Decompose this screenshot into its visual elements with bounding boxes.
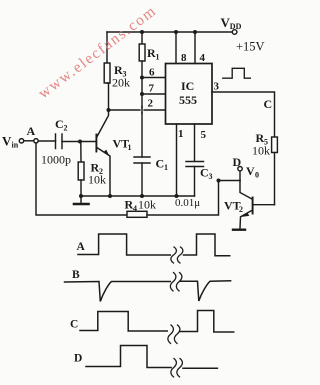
resistor R5 bbox=[272, 137, 278, 153]
svg-text:7: 7 bbox=[149, 83, 155, 95]
resistor R2 bbox=[80, 142, 82, 163]
svg-text:10k: 10k bbox=[252, 144, 270, 158]
wire Vin to A bbox=[24, 140, 34, 142]
svg-text:1: 1 bbox=[164, 163, 168, 172]
wire pin7 bbox=[142, 93, 166, 95]
wire C2 to VT1 base bbox=[62, 141, 96, 143]
node dot base/R2 bbox=[78, 140, 82, 144]
terminal VDD bbox=[232, 30, 237, 35]
waveform C trace bbox=[80, 312, 167, 332]
svg-text:in: in bbox=[12, 141, 19, 150]
svg-text:C: C bbox=[200, 166, 209, 180]
node dot R3/VT1 collector bbox=[107, 108, 111, 112]
svg-text:10k: 10k bbox=[138, 198, 156, 212]
wire R4 to VT2 base column bbox=[147, 181, 219, 216]
wire to node D / VT2 base bbox=[219, 180, 241, 182]
pulse symbol at output bbox=[223, 68, 251, 78]
svg-text:+15V: +15V bbox=[236, 40, 265, 54]
resistor R3 bbox=[106, 32, 108, 63]
svg-text:555: 555 bbox=[179, 93, 197, 107]
break symbol A bbox=[171, 247, 183, 263]
transistor VT1 bbox=[96, 110, 110, 196]
svg-text:20k: 20k bbox=[112, 76, 130, 90]
capacitor C1 bbox=[134, 156, 150, 158]
svg-text:A: A bbox=[77, 241, 86, 253]
node D terminal bbox=[239, 171, 241, 181]
svg-text:8: 8 bbox=[181, 52, 187, 64]
svg-text:IC: IC bbox=[181, 79, 194, 93]
break symbol B bbox=[170, 273, 182, 291]
waveform traces bbox=[65, 234, 234, 377]
svg-text:2: 2 bbox=[239, 205, 243, 214]
svg-text:3: 3 bbox=[214, 81, 220, 93]
svg-text:C: C bbox=[70, 319, 78, 331]
wire R1 bottom to C1 bbox=[141, 61, 143, 157]
wire pin1 bbox=[176, 124, 178, 196]
op-amp/IC U1 555 box bbox=[166, 64, 213, 125]
waveform B trace bbox=[65, 282, 171, 302]
wire A down + feedback line bbox=[36, 143, 127, 215]
waveform A trace bbox=[78, 234, 170, 255]
node dot pin6 tap bbox=[140, 76, 144, 80]
wire pin4 bbox=[194, 32, 196, 64]
svg-text:C: C bbox=[264, 97, 273, 111]
node A bbox=[34, 139, 38, 143]
svg-text:DD: DD bbox=[230, 22, 242, 31]
capacitor C2 bbox=[55, 134, 57, 149]
svg-text:D: D bbox=[74, 353, 82, 365]
svg-text:6: 6 bbox=[149, 67, 155, 79]
svg-text:1: 1 bbox=[178, 128, 184, 140]
node dot pin7 tap bbox=[140, 92, 144, 96]
svg-text:0.01μ: 0.01μ bbox=[175, 197, 200, 209]
svg-text:5: 5 bbox=[201, 129, 207, 141]
svg-text:4: 4 bbox=[200, 52, 206, 64]
wire A to C2 bbox=[38, 140, 55, 142]
break symbol C bbox=[168, 325, 180, 343]
svg-text:3: 3 bbox=[209, 172, 213, 181]
waveform labels bbox=[70, 241, 86, 365]
resistor R1 bbox=[141, 32, 143, 44]
svg-text:A: A bbox=[27, 124, 36, 138]
wire ground rail bbox=[81, 195, 195, 197]
svg-text:0: 0 bbox=[255, 171, 259, 180]
svg-text:2: 2 bbox=[64, 124, 68, 133]
svg-text:4: 4 bbox=[133, 204, 137, 213]
node junction dots on rail bbox=[140, 30, 197, 34]
transistor VT2 bbox=[233, 181, 275, 230]
wire pin3 output bbox=[212, 92, 275, 137]
svg-text:B: B bbox=[72, 269, 80, 281]
svg-text:V: V bbox=[246, 164, 255, 178]
svg-text:1: 1 bbox=[128, 143, 132, 152]
wire pin2 from collector junction bbox=[109, 109, 166, 111]
svg-text:1: 1 bbox=[156, 53, 160, 62]
wire pin5 bbox=[194, 124, 196, 161]
node dot base junction bbox=[217, 179, 221, 183]
break symbol D bbox=[171, 359, 183, 377]
svg-text:2: 2 bbox=[148, 98, 154, 110]
resistor R4 bbox=[127, 211, 147, 217]
svg-text:V: V bbox=[2, 134, 12, 149]
terminal Vin bbox=[19, 139, 23, 143]
wire pin6 bbox=[142, 77, 166, 79]
labels schematic bbox=[2, 15, 272, 214]
svg-text:D: D bbox=[233, 155, 242, 169]
svg-text:C: C bbox=[156, 157, 165, 171]
waveform D trace bbox=[86, 346, 171, 368]
capacitor C3 bbox=[186, 161, 204, 163]
ground bbox=[80, 196, 82, 203]
wire top supply rail bbox=[107, 31, 232, 33]
svg-text:10k: 10k bbox=[88, 173, 106, 187]
svg-text:1000p: 1000p bbox=[41, 153, 71, 167]
svg-text:C: C bbox=[55, 117, 64, 131]
wire pin8 bbox=[175, 32, 177, 64]
